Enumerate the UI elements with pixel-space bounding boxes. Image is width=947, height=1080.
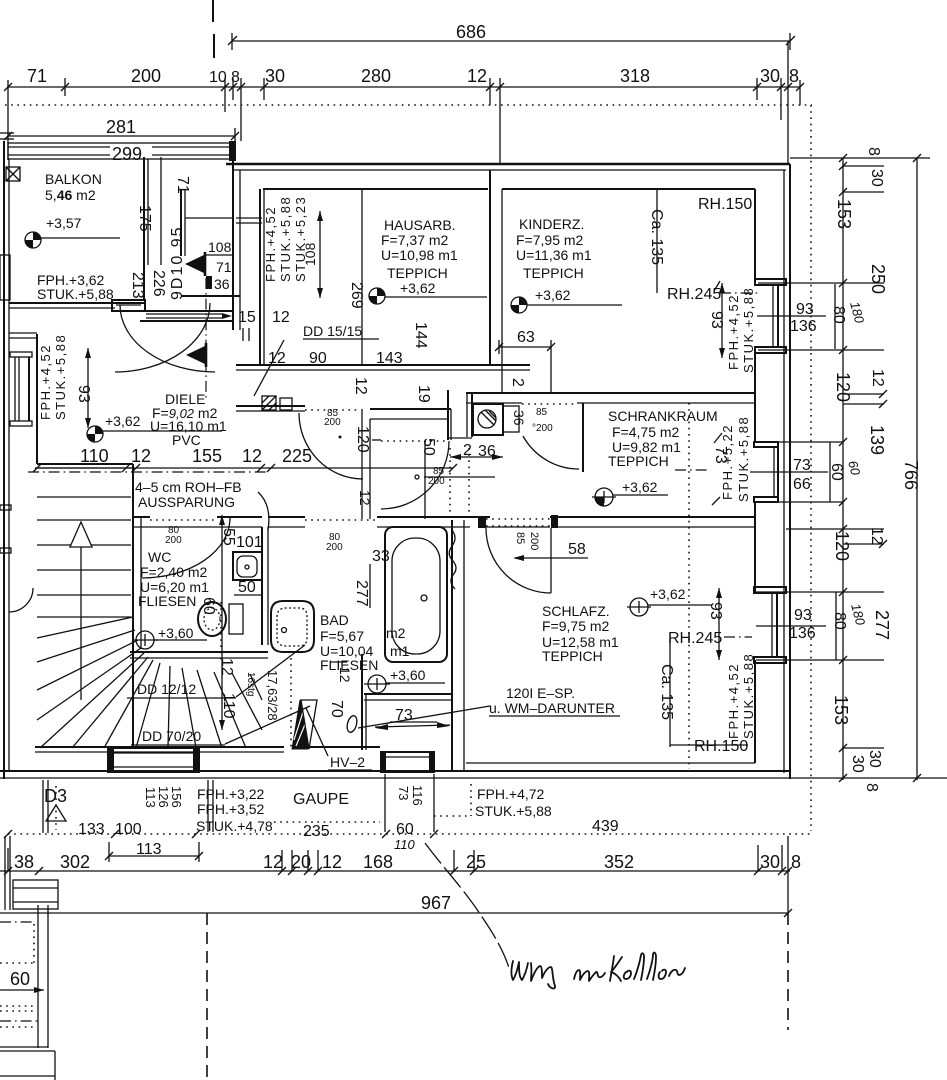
svg-text:12: 12	[263, 852, 283, 872]
handwritten note WM im Keller	[512, 953, 686, 989]
svg-text:BAD: BAD	[320, 612, 349, 628]
svg-text:8: 8	[865, 147, 882, 156]
svg-text:36: 36	[214, 276, 230, 292]
svg-text:20: 20	[291, 852, 311, 872]
svg-text:U=10,98 m1: U=10,98 m1	[381, 247, 458, 263]
svg-text:DD 15/15: DD 15/15	[303, 323, 362, 339]
113 window bracket	[109, 855, 199, 857]
balcony parapet 299	[8, 143, 232, 159]
svg-text:30: 30	[849, 755, 866, 773]
svg-text:200: 200	[131, 66, 161, 86]
svg-text:m1: m1	[390, 643, 410, 659]
svg-text:F=9,75 m2: F=9,75 m2	[542, 618, 610, 634]
svg-text:STUK.+5,88: STUK.+5,88	[741, 287, 756, 373]
svg-text:60: 60	[10, 969, 30, 989]
svg-text:+3,62: +3,62	[105, 413, 141, 429]
svg-text:17,63/28: 17,63/28	[265, 670, 280, 721]
svg-text:200: 200	[428, 476, 445, 487]
svg-text:RH.245: RH.245	[668, 630, 722, 647]
svg-text:15: 15	[238, 309, 256, 326]
svg-text:153: 153	[834, 199, 854, 229]
svg-text:80: 80	[831, 612, 848, 630]
svg-text:439: 439	[592, 818, 619, 835]
svg-text:12: 12	[352, 377, 369, 395]
svg-text:+3,62: +3,62	[650, 586, 686, 602]
svg-text:175: 175	[136, 205, 153, 232]
svg-text:277: 277	[353, 580, 370, 607]
svg-text:213: 213	[129, 272, 146, 299]
hv-2 black hatched box	[292, 700, 308, 749]
chain line door axis	[205, 278, 207, 400]
right wall middle window	[754, 442, 778, 447]
dimension chain top row	[8, 86, 800, 88]
svg-text:71: 71	[174, 176, 191, 194]
svg-text:120I E–SP.: 120I E–SP.	[506, 685, 575, 701]
svg-text:108: 108	[208, 239, 232, 255]
svg-text:200: 200	[326, 542, 343, 553]
stair room bottom wall	[35, 746, 284, 748]
svg-text:73: 73	[396, 786, 411, 800]
dotted roof overhang right edge	[810, 105, 812, 831]
svg-text:2: 2	[509, 378, 526, 387]
extension lines right chains	[756, 158, 947, 778]
balcony door arcs diele	[115, 303, 210, 372]
svg-text:STUK.+5,88: STUK.+5,88	[475, 803, 552, 819]
vestibule north wall stub	[236, 217, 262, 219]
svg-text:155: 155	[192, 446, 222, 466]
svg-text:36: 36	[478, 443, 496, 460]
svg-text:SCHLAFZ.: SCHLAFZ.	[542, 603, 610, 619]
svg-text:FPH.+3,52: FPH.+3,52	[197, 801, 265, 817]
svg-text:8: 8	[863, 783, 880, 792]
svg-text:71: 71	[216, 259, 232, 275]
svg-text:25: 25	[466, 852, 486, 872]
dimension 686 total top	[232, 40, 790, 42]
svg-text:108: 108	[302, 242, 318, 266]
svg-text:136: 136	[789, 625, 816, 642]
left outer wall	[3, 141, 5, 779]
svg-text:302: 302	[60, 852, 90, 872]
svg-text:225: 225	[282, 446, 312, 466]
svg-text:200: 200	[324, 417, 341, 428]
svg-text:TEPPICH: TEPPICH	[542, 648, 603, 664]
svg-text:133: 133	[78, 821, 105, 838]
svg-text:70: 70	[328, 700, 345, 718]
wc south wall	[130, 651, 268, 653]
svg-text:+3,62: +3,62	[400, 280, 436, 296]
left edge wall fragments	[4, 836, 6, 910]
svg-text:12: 12	[357, 490, 373, 506]
svg-text:36: 36	[511, 410, 527, 426]
svg-text:63: 63	[517, 329, 535, 346]
svg-text:299: 299	[112, 144, 142, 164]
svg-text:38: 38	[14, 852, 34, 872]
svg-text:120: 120	[833, 372, 853, 402]
svg-text:8: 8	[789, 66, 799, 86]
svg-text:FPH.+4,52: FPH.+4,52	[263, 206, 278, 282]
svg-text:226: 226	[150, 270, 167, 297]
upper flight treads	[37, 497, 131, 617]
svg-text:110: 110	[394, 837, 415, 852]
svg-text:12: 12	[869, 369, 886, 387]
svg-text:BALKON: BALKON	[45, 171, 102, 187]
svg-text:686: 686	[456, 22, 486, 42]
balcony door sill	[112, 300, 145, 311]
right wall upper window	[755, 279, 786, 285]
svg-text:KINDERZ.: KINDERZ.	[519, 216, 584, 232]
svg-text:967: 967	[421, 893, 451, 913]
left edge fragments top	[0, 132, 14, 134]
schlafz north wall	[466, 516, 490, 518]
svg-text:STUK.+5,88: STUK.+5,88	[278, 196, 293, 282]
bottom big window (gaupe)	[108, 748, 199, 772]
window dim lines right (80 / 60 arrows)	[834, 284, 836, 349]
svg-text:12: 12	[268, 350, 286, 367]
svg-text:HAUSARB.: HAUSARB.	[384, 217, 456, 233]
svg-text:93: 93	[707, 602, 724, 620]
right wall lower window	[754, 587, 786, 593]
svg-text:12: 12	[337, 667, 353, 683]
svg-text:TEPPICH: TEPPICH	[387, 265, 448, 281]
svg-text:+3,60: +3,60	[158, 625, 194, 641]
placeholder groups filled below	[0, 0, 812, 300]
svg-text:STUK.+5,23: STUK.+5,23	[293, 196, 308, 282]
svg-text:12: 12	[272, 309, 290, 326]
bottom left structure	[0, 905, 55, 1080]
door D10 triangles	[185, 254, 206, 274]
svg-text:153: 153	[831, 695, 851, 725]
hausarb south wall	[236, 364, 530, 366]
entry vestibule walls	[143, 157, 145, 300]
svg-text:STUK.+5,88: STUK.+5,88	[736, 416, 751, 502]
svg-text:80: 80	[830, 306, 847, 324]
svg-text:100: 100	[115, 821, 142, 838]
svg-text:12: 12	[322, 852, 342, 872]
svg-text:120: 120	[354, 426, 371, 453]
svg-text:DD 70/20: DD 70/20	[142, 728, 201, 744]
svg-text:19: 19	[415, 385, 432, 403]
svg-text:u. WM–DARUNTER: u. WM–DARUNTER	[489, 700, 615, 716]
corridor north wall	[236, 405, 305, 407]
svg-text:+3,60: +3,60	[390, 667, 426, 683]
svg-text:60: 60	[396, 821, 414, 838]
right total chain 766	[916, 158, 918, 780]
svg-text:12: 12	[467, 66, 487, 86]
svg-text:250: 250	[868, 264, 888, 294]
total 967 chain	[0, 912, 788, 914]
svg-text:STUK.+5,88: STUK.+5,88	[741, 653, 756, 739]
door arcs corridor	[299, 413, 363, 479]
bathtub	[385, 527, 447, 662]
winder treads fan	[37, 617, 262, 748]
svg-text:12: 12	[131, 446, 151, 466]
svg-text:235: 235	[303, 823, 330, 840]
svg-text:F=5,67: F=5,67	[320, 628, 364, 644]
svg-text:F=7,95 m2: F=7,95 m2	[516, 232, 584, 248]
kinderz south wall / schrank north wall	[466, 392, 755, 394]
cellar door arc left wall	[9, 588, 33, 612]
svg-text:Ca. 135: Ca. 135	[658, 664, 675, 720]
svg-text:50: 50	[420, 438, 437, 456]
top outer wall	[226, 163, 790, 166]
svg-text:12: 12	[242, 446, 262, 466]
tick slashes right chain	[839, 154, 921, 782]
svg-text:STUK.+5,88: STUK.+5,88	[37, 286, 114, 302]
svg-text:8: 8	[231, 69, 240, 86]
svg-text:90: 90	[309, 350, 327, 367]
dotted roof overhang top edge	[5, 104, 812, 106]
registration mark top	[212, 0, 214, 22]
svg-text:FPH.+4,72: FPH.+4,72	[477, 786, 545, 802]
svg-text:FPH.+3,22: FPH.+3,22	[197, 786, 265, 802]
svg-text:30: 30	[760, 66, 780, 86]
svg-text:93: 93	[75, 385, 92, 403]
svg-text:5,46 m2: 5,46 m2	[45, 187, 96, 203]
svg-text:116: 116	[410, 785, 425, 806]
handwritten leader curve	[425, 843, 509, 968]
diele west wall	[36, 334, 38, 464]
svg-text:°200: °200	[532, 423, 553, 434]
svg-text:85: 85	[536, 407, 548, 418]
bottom dimension chain	[0, 870, 790, 872]
svg-text:318: 318	[620, 66, 650, 86]
svg-text:168: 168	[363, 852, 393, 872]
balcony bottom wall	[9, 302, 144, 304]
crossed box column balcony	[6, 167, 20, 181]
hausarb/kinderz dividing wall	[489, 170, 491, 365]
svg-text:FLIESEN: FLIESEN	[138, 593, 196, 609]
svg-text:RH.150: RH.150	[698, 196, 752, 213]
svg-text:30: 30	[760, 852, 780, 872]
bad south wall	[364, 693, 452, 695]
corridor south wall	[133, 516, 150, 518]
svg-text:30: 30	[265, 66, 285, 86]
dotted bottom overhang	[8, 833, 811, 835]
diele north wall with window	[140, 310, 233, 312]
svg-text:FPH.+5,22: FPH.+5,22	[720, 424, 735, 500]
svg-text:50: 50	[238, 579, 256, 596]
svg-text:136: 136	[790, 318, 817, 335]
dotted knee line	[688, 403, 690, 769]
svg-text:280: 280	[361, 66, 391, 86]
svg-text:269: 269	[348, 282, 365, 309]
svg-text:113: 113	[143, 787, 158, 808]
svg-text:TEPPICH: TEPPICH	[608, 453, 669, 469]
dim extension line hausarb	[361, 189, 363, 364]
svg-text:113: 113	[136, 841, 162, 858]
svg-text:8: 8	[791, 852, 801, 872]
svg-text:GAUPE: GAUPE	[293, 791, 349, 808]
svg-text:m2: m2	[386, 625, 406, 641]
svg-text:2: 2	[463, 442, 472, 459]
svg-text:352: 352	[604, 852, 634, 872]
bad washbasin	[271, 601, 314, 652]
chain 110 12 155 12 225	[35, 467, 453, 469]
svg-text:60: 60	[200, 597, 217, 615]
svg-text:STUK.+4,78: STUK.+4,78	[196, 818, 273, 834]
stair direction arrow	[80, 545, 82, 700]
corridor pier walls	[361, 409, 363, 519]
schlafz door arc	[550, 528, 552, 593]
svg-text:139: 139	[867, 425, 887, 455]
svg-text:120: 120	[832, 531, 852, 561]
svg-text:30: 30	[866, 750, 883, 768]
gaupe strip verticals	[43, 774, 434, 833]
svg-text:4–5 cm ROH–FB: 4–5 cm ROH–FB	[135, 479, 242, 495]
svg-text:TEPPICH: TEPPICH	[523, 265, 584, 281]
left wall sill marks	[0, 505, 11, 510]
stairwell walls	[37, 463, 133, 465]
svg-text:143: 143	[376, 350, 403, 367]
right inner dimension chain	[842, 158, 844, 780]
svg-text:110: 110	[80, 446, 109, 466]
svg-text:F=2,40 m2: F=2,40 m2	[140, 564, 208, 580]
svg-text:AUSSPARUNG: AUSSPARUNG	[138, 494, 235, 510]
svg-text:58: 58	[568, 541, 586, 558]
svg-text:85: 85	[514, 532, 526, 544]
svg-text:RH.150: RH.150	[694, 738, 748, 755]
bottom outer wall	[0, 770, 790, 772]
vent shaft niche walls	[447, 390, 449, 440]
tick slashes chain top	[4, 83, 804, 91]
svg-text:156: 156	[169, 786, 184, 808]
svg-text:+3,57: +3,57	[46, 215, 82, 231]
svg-text:FPH.+4,52: FPH.+4,52	[38, 344, 53, 420]
svg-text:FPH.+4,52: FPH.+4,52	[726, 663, 741, 739]
svg-text:12: 12	[868, 527, 885, 545]
svg-text:277: 277	[872, 610, 892, 640]
svg-text:101: 101	[236, 534, 263, 551]
svg-text:Ca. 135: Ca. 135	[648, 209, 665, 265]
svg-text:200: 200	[165, 535, 182, 546]
schrankraum door arc	[523, 436, 579, 469]
wc door arc	[142, 518, 230, 578]
svg-text:93: 93	[794, 607, 812, 624]
svg-text:STUK.+5,88: STUK.+5,88	[53, 334, 68, 420]
left wall window boxes	[10, 352, 32, 357]
svg-text:SCHRANKRAUM: SCHRANKRAUM	[608, 408, 718, 424]
svg-text:RH.245: RH.245	[667, 286, 721, 303]
wc washbasin	[233, 552, 262, 580]
vent block schrank	[473, 404, 503, 435]
svg-text:71: 71	[27, 66, 47, 86]
svg-text:U=11,36 m1: U=11,36 m1	[516, 247, 592, 263]
wc toilet	[229, 604, 243, 634]
svg-text:10: 10	[209, 69, 227, 86]
svg-text:+3,62: +3,62	[622, 479, 658, 495]
chimney hatched	[262, 396, 276, 410]
svg-text:FPH.+4,52: FPH.+4,52	[726, 294, 741, 370]
svg-text:126: 126	[156, 786, 171, 808]
dimension 281 balcony	[8, 135, 235, 137]
svg-text:HV–2: HV–2	[330, 754, 365, 770]
svg-text:281: 281	[106, 117, 136, 137]
svg-text:33: 33	[372, 548, 390, 565]
wall stub left	[9, 332, 37, 334]
hausarb west wall	[259, 189, 261, 364]
svg-text:766: 766	[901, 460, 921, 490]
bottom small window (gaupe right)	[381, 752, 434, 772]
right outer wall	[789, 164, 791, 779]
svg-text:F=4,75 m2: F=4,75 m2	[612, 424, 680, 440]
schlafz west wall	[451, 520, 453, 771]
wc/bad divider	[261, 527, 263, 645]
dashed verticals below	[206, 913, 208, 1080]
svg-text:66: 66	[793, 476, 811, 493]
svg-text:DD 12/12: DD 12/12	[137, 681, 196, 697]
svg-text:+3,62: +3,62	[535, 287, 571, 303]
svg-text:144: 144	[412, 322, 429, 349]
svg-text:200: 200	[528, 532, 540, 550]
svg-text:9D10 95: 9D10 95	[169, 226, 186, 301]
svg-text:F=7,37 m2: F=7,37 m2	[381, 232, 449, 248]
svg-text:WC: WC	[148, 549, 171, 565]
svg-text:30: 30	[868, 169, 885, 187]
svg-text:D3: D3	[44, 786, 67, 806]
